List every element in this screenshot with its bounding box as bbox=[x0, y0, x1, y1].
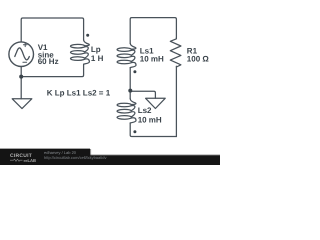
footer watermark bar bbox=[0, 155, 220, 165]
junction dot (Ls1/Ls2/ground) bbox=[128, 89, 132, 93]
footer tall box bbox=[0, 149, 90, 165]
svg-text:K Lp Ls1 Ls2 = 1: K Lp Ls1 Ls2 = 1 bbox=[47, 89, 111, 98]
svg-text:100 Ω: 100 Ω bbox=[187, 55, 210, 64]
svg-text:10 mH: 10 mH bbox=[138, 115, 162, 124]
V1 minus sign bbox=[23, 61, 27, 63]
svg-text:1 H: 1 H bbox=[91, 54, 104, 63]
ground (left) bbox=[12, 99, 32, 109]
inductor Ls2 coil bbox=[117, 99, 136, 123]
svg-text:10 mH: 10 mH bbox=[140, 55, 164, 64]
footer logo zigzag bbox=[10, 159, 23, 161]
wire top-left loop bbox=[21, 18, 83, 42]
inductor Ls1 coil bbox=[117, 43, 136, 67]
V1 plus sign bbox=[23, 43, 27, 47]
inductor Lp coil bbox=[70, 40, 89, 64]
svg-text:▭LAB: ▭LAB bbox=[24, 158, 37, 163]
junction dot (V1 bottom) bbox=[19, 75, 23, 79]
phase dot Lp bbox=[86, 34, 89, 37]
wire R1 bottom bbox=[175, 66, 177, 136]
phase dot Ls1 bbox=[133, 70, 136, 73]
wire ground branch (right) bbox=[130, 91, 155, 98]
svg-text:http://circuitlab.com/cell/lxk: http://circuitlab.com/cell/lxkybaatidv bbox=[44, 155, 106, 160]
wire right loop top bbox=[130, 18, 176, 44]
wire Ls1 bottom to Ls2 top bbox=[129, 68, 131, 99]
wire: left loop top and verticals bbox=[9, 18, 181, 137]
wire V1 bottom to ground bbox=[20, 67, 22, 99]
svg-text:Ls2: Ls2 bbox=[138, 106, 152, 115]
svg-text:Lp: Lp bbox=[91, 45, 101, 54]
wire Lp bottom to source bottom bbox=[21, 64, 83, 76]
resistor R1 zigzag bbox=[170, 38, 181, 67]
phase dot Ls2 bbox=[133, 130, 136, 133]
V1 sine mark bbox=[15, 48, 29, 60]
voltage source V1 circle bbox=[9, 42, 34, 67]
svg-text:60 Hz: 60 Hz bbox=[38, 57, 59, 66]
wire Ls2 bottom to bottom wire bbox=[130, 123, 176, 137]
ground (right) bbox=[146, 98, 166, 108]
